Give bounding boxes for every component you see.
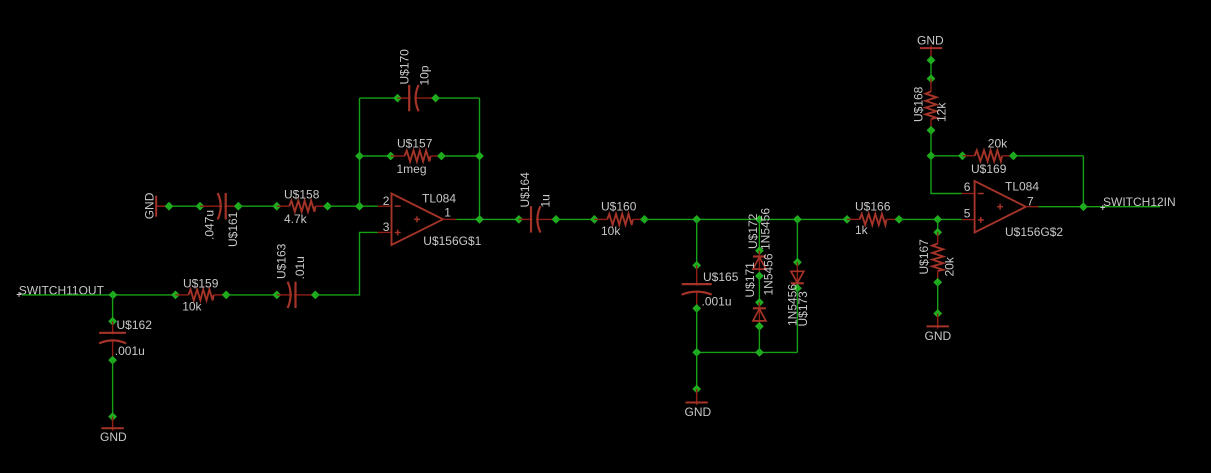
junction xyxy=(843,215,852,224)
svg-text:1k: 1k xyxy=(855,223,869,237)
junction xyxy=(109,291,118,300)
junction xyxy=(431,94,440,103)
junction xyxy=(108,317,117,326)
svg-text:.001u: .001u xyxy=(702,295,732,309)
svg-text:U$159: U$159 xyxy=(183,277,219,291)
wire clamp bottom rail xyxy=(697,351,798,353)
wire xyxy=(696,219,698,265)
junction xyxy=(755,246,764,255)
svg-text:GND: GND xyxy=(685,405,712,419)
resistor U$158 4.7k xyxy=(277,201,328,212)
svg-text:U$157: U$157 xyxy=(397,137,433,151)
wire xyxy=(899,218,962,220)
op-amp U$156G$2 TL084 xyxy=(975,181,1026,233)
junction xyxy=(958,151,967,160)
wire SWITCH11OUT net xyxy=(22,294,176,296)
junction xyxy=(355,152,364,161)
svg-text:U$161: U$161 xyxy=(226,211,240,247)
junction node clamp C xyxy=(692,215,701,224)
ground GND (clamp) xyxy=(686,389,708,405)
diode U$171 1N5456 xyxy=(753,251,766,276)
wire xyxy=(328,205,378,207)
junction xyxy=(927,126,936,135)
capacitor U$162 .001u xyxy=(99,321,126,360)
svg-text:1u: 1u xyxy=(538,194,552,207)
junction node pin2 xyxy=(355,202,364,211)
junction xyxy=(323,202,332,211)
junction node R167 tap xyxy=(933,215,942,224)
resistor U$160 10k xyxy=(594,214,644,225)
ground GND (input bias) xyxy=(156,196,169,217)
svg-text:U$156G$2: U$156G$2 xyxy=(1005,225,1063,239)
svg-text:20k: 20k xyxy=(988,136,1008,150)
junction xyxy=(108,356,117,365)
wire xyxy=(360,97,398,99)
junction xyxy=(692,348,701,357)
junction node feedback/out xyxy=(475,215,484,224)
svg-text:GND: GND xyxy=(917,33,944,47)
junction xyxy=(692,385,701,394)
ground GND (below U$167) xyxy=(927,314,949,329)
junction xyxy=(692,304,701,313)
wire xyxy=(112,360,114,417)
junction xyxy=(755,215,764,224)
svg-text:U$160: U$160 xyxy=(601,200,637,214)
junction xyxy=(755,348,764,357)
svg-text:1N5456: 1N5456 xyxy=(762,253,776,295)
svg-text:1: 1 xyxy=(444,205,451,219)
svg-text:U$163: U$163 xyxy=(275,243,289,279)
wire xyxy=(931,155,962,157)
svg-text:10p: 10p xyxy=(417,65,431,85)
svg-text:U$168: U$168 xyxy=(912,86,926,122)
capacitor U$170 10p xyxy=(398,85,436,111)
wire xyxy=(644,218,847,220)
svg-text:SWITCH12IN: SWITCH12IN xyxy=(1103,195,1176,209)
junction xyxy=(933,309,942,318)
wire xyxy=(436,97,480,99)
wire xyxy=(937,282,939,313)
junction node output xyxy=(1079,202,1088,211)
capacitor U$164 1u xyxy=(519,206,556,232)
svg-text:3: 3 xyxy=(383,220,390,234)
svg-text:U$156G$1: U$156G$1 xyxy=(423,234,481,248)
svg-text:12k: 12k xyxy=(934,102,948,122)
wire xyxy=(930,57,932,79)
resistor U$166 1k xyxy=(847,214,899,225)
wire feedback right vertical (U$169) xyxy=(1082,156,1084,207)
wire xyxy=(169,205,200,207)
wire xyxy=(930,130,932,156)
resistor U$157 1meg xyxy=(391,151,442,162)
capacitor U$161 .047u xyxy=(200,193,238,219)
resistor U$168 12k xyxy=(926,79,937,131)
pin lead op-amp U$156G$1 output pin 1 xyxy=(443,218,456,220)
wire xyxy=(937,219,939,232)
junction xyxy=(755,272,764,281)
svg-text:GND: GND xyxy=(142,192,156,219)
wire xyxy=(112,295,114,321)
junction xyxy=(393,94,402,103)
wire xyxy=(556,218,594,220)
wire xyxy=(796,288,798,352)
resistor U$159 10k xyxy=(176,289,227,300)
junction xyxy=(108,412,117,421)
svg-text:.047u: .047u xyxy=(203,210,217,240)
junction xyxy=(272,202,281,211)
svg-text:TL084: TL084 xyxy=(1005,180,1039,194)
pin lead op-amp U$156G$1 pin 3 xyxy=(378,231,392,233)
ground GND (below U$162) xyxy=(101,417,123,431)
svg-text:U$165: U$165 xyxy=(703,270,739,284)
pin lead op-amp U$156G$2 output pin 7 xyxy=(1026,206,1039,208)
junction xyxy=(196,202,205,211)
junction xyxy=(475,152,484,161)
junction xyxy=(927,74,936,83)
svg-text:4.7k: 4.7k xyxy=(284,212,308,226)
svg-text:U$167: U$167 xyxy=(917,239,931,275)
svg-text:5: 5 xyxy=(964,207,971,221)
svg-text:U$169: U$169 xyxy=(971,162,1007,176)
resistor U$167 20k xyxy=(932,232,943,282)
junction xyxy=(933,228,942,237)
label origin cross SWITCH11OUT xyxy=(17,294,22,296)
junction xyxy=(514,215,523,224)
wire to op-amp pin 3 xyxy=(315,232,377,295)
svg-text:6: 6 xyxy=(964,180,971,194)
svg-text:.01u: .01u xyxy=(293,256,307,279)
svg-text:1N5456: 1N5456 xyxy=(759,208,773,250)
junction xyxy=(1009,151,1018,160)
diode U$172 1N5456 (lower) xyxy=(753,302,766,326)
junction xyxy=(640,215,649,224)
svg-text:U$162: U$162 xyxy=(117,318,153,332)
svg-text:GND: GND xyxy=(925,329,952,343)
junction xyxy=(590,215,599,224)
diode U$173 1N5456 xyxy=(791,262,804,288)
wire xyxy=(758,219,760,250)
junction xyxy=(755,322,764,331)
junction xyxy=(386,152,395,161)
junction xyxy=(437,152,446,161)
svg-text:U$170: U$170 xyxy=(397,49,411,85)
wire feedback right vertical xyxy=(479,98,481,219)
resistor U$169 20k xyxy=(962,150,1013,161)
wire xyxy=(441,155,479,157)
junction xyxy=(222,291,231,300)
wire xyxy=(226,294,277,296)
junction xyxy=(793,258,802,267)
pin lead op-amp U$156G$2 pin 6 xyxy=(962,193,975,195)
wire xyxy=(696,308,698,352)
junction xyxy=(234,202,243,211)
svg-text:U$166: U$166 xyxy=(855,200,891,214)
junction node bias xyxy=(927,151,936,160)
junction xyxy=(171,291,180,300)
junction xyxy=(755,298,764,307)
pin lead op-amp U$156G$2 pin 5 xyxy=(962,219,975,221)
pin lead op-amp U$156G$1 pin 2 xyxy=(378,205,392,207)
svg-text:U$164: U$164 xyxy=(518,172,532,208)
svg-text:20k: 20k xyxy=(943,256,957,276)
op-amp U$156G$1 TL084 xyxy=(392,194,444,246)
wire SWITCH12IN net xyxy=(1039,206,1161,208)
svg-text:1meg: 1meg xyxy=(397,162,427,176)
svg-text:GND: GND xyxy=(100,430,127,444)
ground GND (top right) xyxy=(920,46,942,58)
wire xyxy=(796,219,798,262)
junction xyxy=(165,202,174,211)
wire to op-amp pin 6 xyxy=(931,156,962,194)
svg-text:10k: 10k xyxy=(182,300,202,314)
junction xyxy=(895,215,904,224)
junction xyxy=(692,261,701,270)
junction xyxy=(793,284,802,293)
wire xyxy=(758,326,760,352)
capacitor U$165 .001u xyxy=(682,265,712,308)
svg-text:U$173: U$173 xyxy=(796,291,810,327)
svg-text:10k: 10k xyxy=(601,224,621,238)
capacitor U$163 .01u xyxy=(277,282,316,308)
junction xyxy=(927,56,936,65)
wire xyxy=(758,276,760,303)
wire xyxy=(456,218,519,220)
wire xyxy=(696,352,698,389)
wire feedback left vertical xyxy=(359,98,361,206)
label origin cross SWITCH12IN xyxy=(1100,207,1105,209)
junction xyxy=(552,215,561,224)
svg-text:2: 2 xyxy=(383,194,390,208)
svg-text:U$158: U$158 xyxy=(284,187,320,201)
svg-text:TL084: TL084 xyxy=(422,191,456,205)
junction xyxy=(311,291,320,300)
wire xyxy=(360,155,391,157)
wire xyxy=(1013,155,1083,157)
junction xyxy=(272,291,281,300)
svg-text:.001u: .001u xyxy=(115,344,145,358)
wire xyxy=(238,205,276,207)
junction xyxy=(933,278,942,287)
junction xyxy=(793,215,802,224)
svg-text:U$171: U$171 xyxy=(743,262,757,298)
